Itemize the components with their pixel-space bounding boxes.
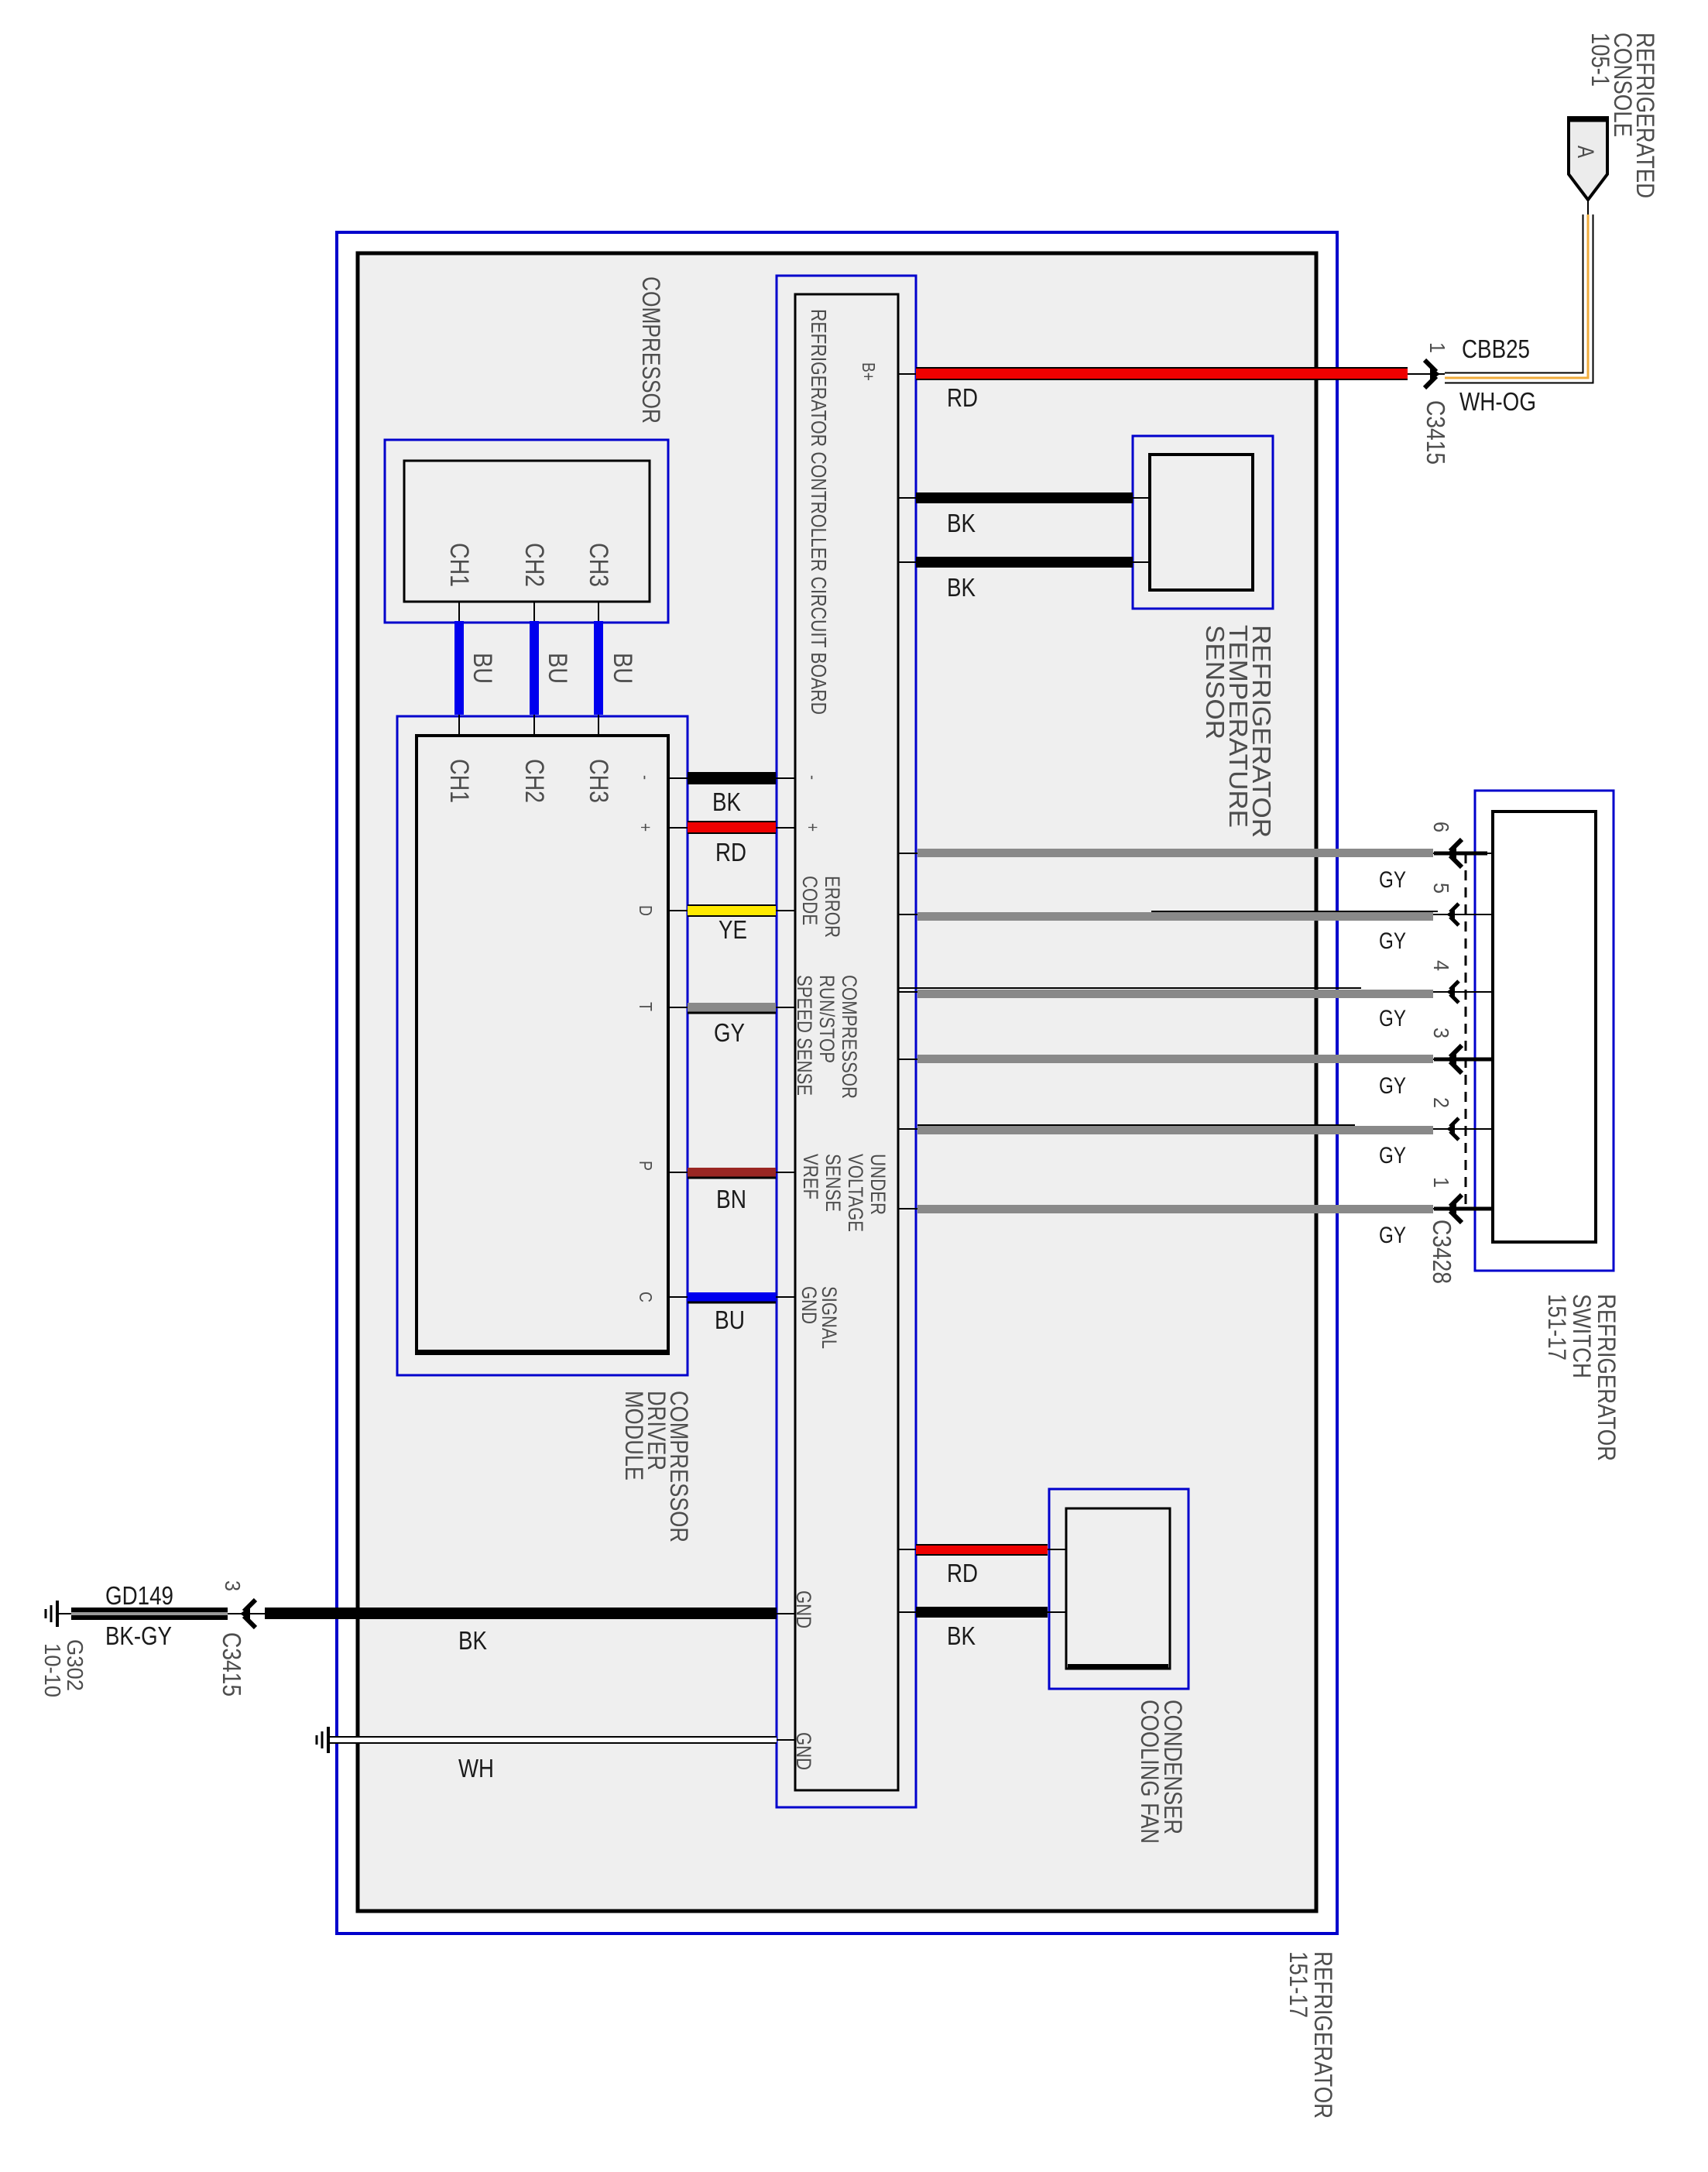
wire lead to connector A [1587,200,1589,214]
svg-text:GND: GND [792,1732,815,1770]
switch refrigerator switch blue box [1475,791,1614,1271]
svg-text:-: - [803,775,823,780]
svg-text:BK: BK [947,509,976,537]
svg-text:SPEED SENSE: SPEED SENSE [793,975,816,1096]
label REFRIGERATOR 151-17 (bottom right) [1284,1951,1337,2119]
ground (WH wire) [328,1739,330,1741]
label COMPRESSOR DRIVER MODULE [620,1391,693,1542]
sensor refrigerator temperature sensor blue box [1133,436,1273,609]
svg-text:B+: B+ [859,362,879,381]
svg-text:CH2: CH2 [520,759,549,803]
wire BU CH3 [594,621,603,715]
wire BK-GY outline [71,1608,228,1620]
svg-text:COOLING FAN: COOLING FAN [1136,1700,1164,1844]
wire YE driver D lead [668,910,688,911]
svg-text:WH: WH [458,1754,494,1783]
module U1 inner black box [795,294,898,1790]
svg-text:RD: RD [947,383,978,412]
svg-text:GY: GY [1379,1223,1406,1248]
svg-text:GY: GY [1379,1073,1406,1099]
wire RD fan [916,1546,1048,1554]
wire WH outline [330,1736,777,1744]
svg-text:105-1: 105-1 [1586,33,1614,87]
module compressor driver module inner black box [417,736,668,1354]
svg-text:GY: GY [1379,1143,1406,1168]
wire RD fan lead [898,1549,916,1550]
svg-text:SENSE: SENSE [821,1154,845,1212]
wire BN driver P lead [668,1172,688,1173]
svg-text:REFRIGERATOR: REFRIGERATOR [1593,1294,1621,1461]
svg-text:BK-GY: BK-GY [105,1621,172,1650]
svg-text:-: - [636,775,656,780]
wire RD B+ outline [916,367,1408,380]
svg-text:REFRIGERATOR CONTROLLER CIRCUI: REFRIGERATOR CONTROLLER CIRCUIT BOARD [807,309,831,715]
switch inner black box [1493,811,1596,1242]
svg-text:BK: BK [458,1626,487,1655]
connector A (refrigerated console) [1569,118,1607,200]
svg-text:BN: BN [716,1185,746,1213]
wire BK GND [265,1608,777,1619]
svg-text:GY: GY [1379,1006,1406,1031]
svg-text:CODE: CODE [798,876,821,925]
connector C3428 pin 4 arrow [1446,986,1455,997]
wire GY switch pin 6 [898,849,1493,857]
svg-text:CH2: CH2 [520,543,549,587]
main box REFRIGERATOR outer blue frame [337,232,1337,1934]
svg-text:C: C [636,1292,656,1302]
svg-text:1: 1 [1425,342,1449,353]
wire BK sensor 1 lead [898,497,916,499]
label CONDENSER COOLING FAN [1136,1700,1187,1844]
svg-text:COMPRESSOR: COMPRESSOR [838,975,861,1099]
wire WH lead [777,1739,795,1741]
wire BN driver P [688,1168,776,1177]
svg-text:BU: BU [608,653,637,684]
wire BK sensor 2 lead [898,561,916,563]
svg-text:UNDER: UNDER [866,1154,890,1215]
sensor inner black box [1150,455,1253,590]
svg-text:BK: BK [947,573,976,602]
wire WH white fill [330,1738,777,1742]
wire YE driver D [688,906,776,915]
wire RD B+ thin end [1408,373,1445,375]
svg-text:SWITCH: SWITCH [1568,1294,1596,1378]
wire BU CH1 [454,621,464,715]
svg-text:YE: YE [719,915,747,944]
svg-text:RD: RD [715,838,746,866]
svg-text:GND: GND [792,1590,815,1628]
wire BU CH1 thin lead [458,602,460,736]
component COMPRESSOR blue box [385,440,668,623]
wire BK sensor 1 [916,492,1133,503]
connector C3428 pin 1 arrow [1446,1202,1456,1216]
svg-text:C3415: C3415 [218,1632,246,1697]
svg-text:+: + [803,823,823,832]
connector C3415 pin 1 arrow [1430,367,1440,381]
connector C3415 pin 3 arrow [240,1607,250,1621]
svg-text:GY: GY [1379,928,1406,954]
wire YE driver D outline [688,904,776,917]
wire WH-OG white fill [1445,214,1588,378]
svg-text:SENSOR: SENSOR [1201,625,1230,739]
svg-text:BK: BK [947,1621,976,1650]
wire BU driver C [688,1292,776,1302]
pin ERROR CODE (board) [798,876,844,938]
svg-text:GD149: GD149 [105,1581,173,1610]
svg-text:CH1: CH1 [444,759,474,803]
wire GY switch pin 2 [898,1125,1493,1134]
svg-text:CH1: CH1 [444,543,474,587]
svg-text:WH-OG: WH-OG [1459,387,1536,416]
label REFRIGERATOR SWITCH 151-17 [1543,1294,1621,1461]
svg-text:BK: BK [712,787,741,816]
module U1 refrigerator controller circuit board blue box [777,276,916,1807]
pin UNDER VOLTAGE SENSE VREF (board) [799,1154,890,1232]
wire RD driver + outline [688,821,776,834]
wire BU CH2 [530,621,539,715]
module compressor driver module blue box [397,716,688,1375]
svg-text:5: 5 [1429,883,1453,894]
svg-text:151-17: 151-17 [1543,1294,1571,1361]
svg-text:MODULE: MODULE [620,1391,648,1481]
component COMPRESSOR inner black box [404,461,650,602]
wire WH-OG outline [1445,214,1588,378]
svg-text:P: P [636,1161,656,1171]
svg-text:+: + [636,823,656,832]
svg-text:RD: RD [947,1559,978,1587]
wire WH-OG orange stripe [1445,214,1588,378]
svg-text:G302: G302 [62,1639,87,1691]
svg-text:T: T [636,1002,656,1011]
wire RD fan outline [916,1544,1048,1556]
svg-text:3: 3 [221,1580,245,1591]
svg-text:3: 3 [1429,1028,1453,1038]
svg-text:CBB25: CBB25 [1462,335,1530,363]
wire BK-GY gray stripe [71,1612,228,1615]
connector C3428 pin 5 arrow [1446,909,1455,920]
svg-text:BU: BU [543,653,572,684]
svg-text:COMPRESSOR: COMPRESSOR [637,276,665,424]
wire BK driver - lead [668,777,688,779]
svg-text:10-10: 10-10 [39,1643,64,1697]
svg-text:REFRIGERATOR: REFRIGERATOR [1309,1951,1337,2119]
svg-text:GY: GY [1379,867,1406,893]
pin COMPRESSOR RUN/STOP SPEED SENSE (board) [793,975,861,1099]
wire GY driver T [688,1003,776,1012]
svg-text:C3428: C3428 [1428,1220,1456,1284]
svg-text:A: A [1573,146,1598,158]
svg-text:BU: BU [715,1306,745,1334]
svg-text:GND: GND [797,1286,821,1324]
wire BU CH3 thin lead [598,602,599,736]
svg-text:4: 4 [1429,960,1453,971]
dashed link line (switch pins) [1465,853,1467,1209]
label REFRIGERATED CONSOLE 105-1 [1586,33,1659,198]
wire GY switch pin 4 [898,988,1493,998]
connector C3428 pin 6 arrow [1446,846,1456,860]
wire GY switch pin 1 [898,1205,1493,1213]
wire BK sensor 2 [916,557,1133,568]
svg-text:VOLTAGE: VOLTAGE [844,1154,867,1232]
wire RD B+ [916,369,1408,379]
connector C3428 pin 2 arrow [1446,1124,1455,1134]
svg-text:RUN/STOP: RUN/STOP [815,975,839,1063]
wire BU driver C lead [668,1296,688,1298]
wire BK fan [916,1607,1048,1618]
svg-text:CH3: CH3 [584,759,613,803]
svg-text:CH3: CH3 [584,543,613,587]
wire BK fan lead [898,1611,916,1613]
svg-text:ERROR: ERROR [821,876,844,938]
svg-text:D: D [636,905,656,916]
motor inner black box [1066,1508,1170,1669]
wire lead to C3415 pin 3 [228,1613,265,1614]
wire RD B+ lead [898,373,916,375]
svg-text:VREF: VREF [799,1154,822,1199]
connector C3428 pin 3 arrow [1446,1052,1456,1066]
ground G302 [57,1613,71,1614]
wire GY driver T lead [668,1007,688,1008]
svg-text:1: 1 [1429,1177,1453,1188]
svg-text:BU: BU [468,653,497,684]
svg-text:GY: GY [714,1018,745,1047]
wire GY switch pin 5 [898,911,1493,921]
pin SIGNAL GND (board) [797,1286,841,1349]
wire GY switch pin 3 [898,1055,1493,1063]
label REFRIGERATOR TEMPERATURE SENSOR [1201,625,1276,838]
wire RD driver + [688,822,776,832]
motor condenser cooling fan blue box [1049,1489,1188,1689]
wire BK GND lead [777,1613,795,1614]
wire RD driver + lead [668,827,688,829]
svg-text:151-17: 151-17 [1284,1951,1312,2018]
main box REFRIGERATOR inner black frame [358,253,1316,1911]
wire BU CH2 thin lead [533,602,535,736]
svg-text:C3415: C3415 [1422,400,1450,465]
svg-text:2: 2 [1429,1097,1453,1108]
svg-text:6: 6 [1429,822,1453,832]
wire BK driver - [688,772,776,784]
